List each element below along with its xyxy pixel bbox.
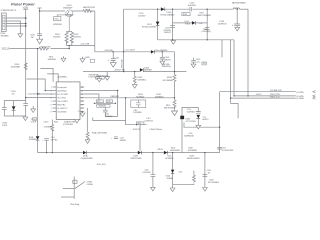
resistor R102: [65, 31, 68, 43]
wire: C104 subcircuit top y100.6: [4, 100, 25, 102]
arrow: C11B net: [31, 109, 36, 113]
capacitor C11y plates on x219.6: [217, 147, 222, 149]
wire: primary top rail2 y9.2: [124, 8, 161, 10]
wire: D103 column: [13, 101, 15, 107]
capacitor C115 plates: [203, 175, 208, 177]
wire: snubber bottom bus y39.8: [158, 39, 234, 41]
wire: R102/R103 top bus: [67, 30, 72, 32]
opto U10B (filled): [180, 116, 184, 120]
wire: IC left feed y79: [27, 79, 46, 91]
svg-text:10K/SMD0: 10K/SMD0: [137, 79, 146, 81]
svg-text:FB0 FB2: FB0 FB2: [57, 104, 66, 106]
wire: C111 lower stub: [25, 105, 27, 117]
resistor R123: [192, 174, 195, 182]
wire: R108 vertical x174.5 top: [174, 52, 176, 74]
svg-text:U1: U1: [81, 87, 83, 89]
wire: R108 to R112: [174, 82, 176, 99]
svg-text:104/TBD0: 104/TBD0: [187, 112, 195, 114]
wire: vertical x219.6 from line1 down to bottom rail: [219, 92, 221, 153]
svg-text:102/1KV: 102/1KV: [138, 15, 146, 17]
capacitor C102 plates: [205, 28, 210, 30]
arrow: R113 net: [61, 58, 66, 62]
transistor Q104: [57, 10, 73, 32]
wire: +5V secondary rail y71.6: [83, 71, 140, 73]
capacitor C104 plates: [2, 108, 7, 110]
capacitor C103 plates: [170, 26, 175, 28]
resistor R10x box under rail: [96, 77, 105, 80]
U100 pin names: [57, 87, 69, 114]
svg-text:104/400V: 104/400V: [188, 5, 197, 7]
svg-text:8: 8: [51, 111, 52, 113]
wire: LED column x172.6: [172, 153, 174, 170]
wire: opto to column: [182, 107, 198, 115]
wire: TVS horizontal y22.9: [173, 22, 192, 24]
wire: pin feed y89.4: [45, 90, 52, 92]
ground: R11A: [85, 140, 90, 144]
pin stubs left of U100: [53, 86, 57, 88]
svg-text:R101: R101: [55, 19, 59, 21]
capacitor C105 (series in rail2): [189, 8, 192, 10]
svg-text:(C10: (C10: [107, 101, 111, 103]
svg-text:+19V_DSB: +19V_DSB: [80, 43, 90, 45]
inductor L100 bumps: [233, 8, 239, 9]
wire: long vertical x37.6: [37, 49, 39, 137]
connector pins: [3, 17, 5, 19]
resistor R11A: [86, 131, 89, 139]
wire: bottom secondary rail y152.6: [38, 152, 83, 154]
svg-text:R12x_NC0: R12x_NC0: [97, 164, 106, 166]
resistor R10A zigzag: [38, 47, 49, 50]
svg-text:UM/9W: UM/9W: [120, 140, 126, 142]
svg-text:42 0: 42 0: [97, 101, 100, 103]
connector CON100 outer box: [1, 13, 6, 32]
svg-text:4.7U/35V/TBD: 4.7U/35V/TBD: [222, 150, 234, 152]
wire: secondary horizontal y51.8: [95, 51, 151, 53]
ground: C230: [235, 27, 240, 31]
wire: diagonal +5VSB flag: [75, 182, 85, 189]
svg-text:+12V D/SB: +12V D/SB: [104, 50, 114, 52]
svg-text:R11A 1.0K Pb/SMD: R11A 1.0K Pb/SMD: [92, 132, 108, 135]
wire: opto drop x182 to bottom rail: [181, 119, 183, 152]
ground: C100 (large): [37, 39, 43, 44]
wire: right vertical down to output line2: [247, 9, 249, 96]
svg-text:1K0/SMD0: 1K0/SMD0: [155, 96, 164, 98]
ground: R112 bottom: [172, 111, 178, 116]
diode D-04 TVS (filled, on y22.9): [192, 21, 195, 25]
diode D10C (filled, on bottom rail): [164, 151, 167, 155]
ground: standalone left: [80, 113, 85, 117]
connector arrows at right edge: [313, 91, 316, 100]
ground: connector pin2: [18, 34, 23, 38]
wire: R11A feed vertical: [86, 108, 88, 131]
svg-text:0.1UF: 0.1UF: [2, 125, 8, 127]
svg-text:(1 1471B: (1 1471B: [296, 92, 304, 94]
arrow: stub to +5V box net: [105, 77, 110, 81]
transistor Q bottom-left box: [73, 180, 77, 183]
box: C11B flag: [33, 118, 37, 121]
wire: bottom-left transistor vertical: [73, 177, 75, 199]
svg-text:L11A 4.7UH/smt: L11A 4.7UH/smt: [150, 128, 163, 131]
resistor R105 in rail: [24, 62, 27, 70]
wire: rail fuse to corner: [90, 10, 94, 12]
svg-text:4.7UF/50V: 4.7UF/50V: [142, 172, 151, 174]
wire: vertical B x234: [233, 40, 235, 96]
svg-text:49.9R 1%: 49.9R 1%: [133, 129, 141, 131]
wire: emitter-resistor bottom bus to fuse vertical: [67, 45, 95, 47]
connector CON100 inner pin strip: [2, 15, 5, 30]
svg-text:VI-LIMIT#2: VI-LIMIT#2: [57, 108, 68, 110]
svg-text:100K/SMD: 100K/SMD: [11, 67, 21, 69]
wire: stub y196.2: [61, 196, 74, 198]
wire: long vertical x231.3 down to output line3: [230, 40, 232, 104]
svg-text:0.1UF: 0.1UF: [31, 122, 37, 124]
wire: vertical from fuse corner down: [94, 11, 96, 52]
svg-text:6TQ040S/SMD: 6TQ040S/SMD: [81, 158, 94, 160]
resistor R108: [173, 74, 176, 82]
ground: C115: [203, 188, 208, 192]
ground: U100 bottom: [75, 120, 80, 124]
svg-text:SS-COMP1: SS-COMP1: [57, 101, 68, 103]
svg-text:12: 12: [81, 104, 83, 106]
svg-text:D10x 3A/SMD: D10x 3A/SMD: [155, 49, 168, 52]
wire: rail Q104 to fuse: [72, 10, 83, 12]
arrow: LX net above IC: [97, 78, 102, 82]
wire: vertical x123.6 from rail2 down to +5V rail: [123, 9, 125, 71]
op-amp U100 PWM controller box: [56, 82, 80, 120]
wire: SET drop x125.6: [125, 98, 127, 121]
wire: Vin vertical at x39.6: [39, 8, 41, 35]
svg-text:VCORE 3.3V: VCORE 3.3V: [270, 90, 283, 92]
svg-text:04/7RO: 04/7RO: [202, 119, 209, 121]
diode D101 (filled, on x157.6): [156, 22, 160, 26]
svg-text:100/SMD0: 100/SMD0: [29, 139, 37, 141]
svg-text:10R0/1%/SMDR: 10R0/1%/SMDR: [187, 158, 201, 160]
svg-text:3.3K/SMD0: 3.3K/SMD0: [44, 127, 53, 129]
capacitor C113 plates: [193, 58, 195, 61]
svg-text:2K4 UN/SMD: 2K4 UN/SMD: [162, 80, 173, 82]
capacitor C11z plates: [196, 112, 201, 114]
arrow: GND flag left of rail: [80, 59, 85, 63]
svg-text:2SA1300P: 2SA1300P: [63, 7, 73, 10]
wire: IC right net y89.4: [84, 91, 117, 117]
svg-text:(GND: (GND: [85, 57, 90, 59]
wire: LED bottom horizontal to R123: [173, 184, 194, 186]
svg-text:10: 10: [81, 111, 83, 113]
diode D104 LED (filled): [171, 170, 174, 174]
svg-text:R106: R106: [183, 14, 187, 16]
wire: R102/R103 bottom bus: [67, 41, 72, 46]
svg-text:0xF/TBD: 0xF/TBD: [51, 140, 58, 142]
capacitor C117 plates: [114, 137, 118, 139]
boxed label VR/560R: [97, 105, 110, 108]
svg-text:3A(7W)/TRANS: 3A(7W)/TRANS: [232, 2, 246, 5]
svg-text:R51x Relay: R51x Relay: [70, 204, 79, 206]
pin stubs right of U100: [80, 86, 84, 88]
wire: connector pin 4 to +19V rail: [6, 25, 26, 27]
wire: stub x222: [221, 40, 223, 57]
wire: R123 top stub: [193, 171, 195, 175]
svg-text:DC-DC/SET: DC-DC/SET: [57, 94, 69, 96]
svg-text:390/SMD: 390/SMD: [1, 35, 10, 37]
wire: top rail from Vin to Q104: [40, 10, 65, 12]
svg-text:11: 11: [81, 108, 83, 110]
resistor box right-net A: [96, 100, 103, 103]
ground: C107 (medium arrow): [110, 63, 116, 68]
svg-text:3: 3: [51, 94, 52, 96]
wire: rail2 to right corner: [240, 8, 249, 10]
svg-text:OPTO/CNY0: OPTO/CNY0: [185, 121, 195, 123]
svg-text:(1B/R560R: (1B/R560R: [110, 96, 119, 98]
wire: jog at x69: [68, 46, 70, 49]
svg-text:KLEDA: KLEDA: [167, 177, 174, 180]
svg-text:16: 16: [81, 90, 83, 92]
output connector refs: [296, 92, 304, 100]
wire: pin feed y98.2: [26, 97, 53, 99]
svg-text:1-SYUI: 1-SYUI: [256, 94, 262, 96]
diode D10C (filled, dcdc block): [197, 115, 201, 119]
svg-text:6: 6: [51, 104, 52, 106]
wire: C115 column x204.9: [204, 153, 206, 188]
wire: DC_IN horizontal: [10, 48, 38, 50]
svg-text:3A/SMDR: 3A/SMDR: [144, 69, 153, 72]
wire: C116 column x152.9: [152, 153, 154, 175]
resistor R11B box: [136, 122, 144, 125]
svg-text:3 DC_IN: 3 DC_IN: [2, 49, 11, 51]
svg-text:(O/GO(B)C): (O/GO(B)C): [202, 31, 212, 33]
wire: after R10A to Q104 bottom node: [51, 48, 70, 50]
U100 pin numbers: [51, 87, 84, 114]
svg-text:3K0 Pb/SMDR: 3K0 Pb/SMDR: [164, 108, 176, 110]
wire: dcdc bottom bus y127.2: [184, 126, 220, 128]
svg-text:R10A 1/2W: R10A 1/2W: [41, 46, 51, 49]
resistor R106 box: [182, 13, 190, 16]
svg-text:(2R-5V: (2R-5V: [157, 149, 163, 151]
svg-text:10UF/50V: 10UF/50V: [218, 23, 227, 25]
svg-text:+5VSB0: +5VSB0: [86, 184, 93, 186]
ground: C113: [191, 64, 196, 68]
svg-text:(C113/5UHD: (C113/5UHD: [63, 124, 74, 126]
svg-text:3K6/2.7W/SMDR: 3K6/2.7W/SMDR: [198, 15, 212, 17]
ground: C109: [160, 61, 165, 65]
diode D10A (filled, on bottom rail): [83, 151, 86, 155]
svg-text:4R7U/48V: 4R7U/48V: [120, 60, 122, 69]
resistor R112: [173, 99, 176, 107]
svg-text:SS8P2C/SMD: SS8P2C/SMD: [130, 158, 142, 160]
svg-text:5: 5: [51, 101, 52, 103]
svg-text:4: 4: [51, 97, 52, 99]
wire: connector pin 3 to +19V rail: [6, 23, 26, 25]
diode D10D (filled, on x37.6): [36, 136, 40, 140]
svg-text:7: 7: [51, 108, 52, 110]
svg-text:0.1u: 0.1u: [197, 61, 200, 63]
resistor R103: [70, 31, 73, 43]
wire: C107 stub: [112, 52, 114, 59]
wire: +19V vertical rail down left side: [25, 9, 27, 103]
capacitor C100 plates: [37, 34, 42, 36]
diode D10B (filled, on bottom rail): [138, 151, 141, 155]
wire: C104 left column: [3, 101, 5, 108]
svg-text:R10R: R10R: [167, 77, 173, 79]
wire: IC right net y93.8: [84, 94, 99, 100]
wire: C104 subcircuit bottom y116: [4, 115, 25, 117]
svg-text:VR/560R: VR/560R: [98, 106, 106, 108]
svg-text:BYV26C/2A/SMD: BYV26C/2A/SMD: [161, 14, 175, 17]
flag box near +5V rail: [90, 59, 94, 62]
svg-text:C111 052/TBR: C111 052/TBR: [28, 93, 41, 95]
wire: cap drop x105.3: [104, 107, 106, 110]
svg-text:1: 1: [51, 87, 52, 89]
wire: diode/cap column x198.3: [197, 107, 199, 111]
svg-text:14: 14: [81, 97, 83, 99]
wire: output line1 VCORE: [220, 91, 296, 93]
wire: connector pin 1 to +19V rail: [6, 17, 26, 19]
wire: stub y190.2: [63, 188, 74, 190]
diode D103 (filled): [12, 106, 16, 110]
ground: snubber bus: [171, 41, 176, 45]
diode D108 (filled, on +5V rail): [140, 68, 143, 72]
wire: connector pin 2 down to ground: [6, 21, 20, 34]
capacitor C11c plates x46.6: [44, 139, 49, 141]
svg-text:0.8s: 0.8s: [179, 171, 182, 173]
capacitor C107 plates: [111, 59, 116, 61]
wire: R113 drop below IC: [51, 120, 53, 124]
wire: R113 column to rail: [51, 130, 53, 153]
capacitor right-net plates: [103, 110, 108, 112]
wire: boxes bus y102.9: [94, 102, 115, 104]
svg-text:2: 2: [51, 90, 52, 92]
capacitor C230 plates: [234, 24, 240, 26]
wire: snubber vertical x172.6: [172, 9, 174, 40]
svg-text:4K02/SMDR: 4K02/SMDR: [170, 150, 181, 152]
wire: IC left feed y73.9: [47, 74, 58, 82]
resistor R109: [133, 76, 136, 84]
svg-text:+5V/OUT TBD: +5V/OUT TBD: [114, 69, 126, 71]
ground: C116: [151, 187, 156, 191]
svg-text:+C113: +C113: [43, 122, 48, 124]
ground: dcdc diode: [196, 125, 201, 129]
svg-text:Panel Power: Panel Power: [11, 1, 35, 6]
svg-text:AJ103/BUL: AJ103/BUL: [57, 75, 68, 78]
svg-text:TVS18: TVS18: [185, 23, 190, 25]
wire: R11B drop x140: [139, 125, 141, 151]
svg-text:R113: R113: [54, 122, 58, 124]
svg-text:+ 31: + 31: [199, 23, 202, 25]
svg-text:(1 1480B: (1 1480B: [296, 98, 304, 100]
wire: lower net segment B: [126, 121, 147, 125]
svg-text:NC/SMD0: NC/SMD0: [136, 96, 144, 98]
wire: dcdc module corner y103.5: [231, 104, 239, 119]
wire: SET net horizontal y97.8 (pin row to R112): [84, 97, 174, 99]
svg-text:Freq/agnd: Freq/agnd: [57, 87, 66, 89]
svg-text:SSK0008: SSK0008: [105, 116, 112, 118]
wire: lower net segment A: [93, 118, 126, 121]
svg-text:CONN RECEPT 4: CONN RECEPT 4: [0, 10, 17, 12]
ground: LED column: [170, 188, 175, 192]
svg-text:Up/offVync: Up/offVync: [57, 90, 67, 92]
svg-text:100K/SM0: 100K/SM0: [48, 59, 56, 61]
svg-text:WR/560R: WR/560R: [53, 24, 62, 26]
svg-text:UM/25V: UM/25V: [164, 60, 171, 62]
diode D106 (filled, on y51.8): [151, 50, 154, 54]
ground: C104 subcircuit: [23, 117, 28, 121]
wire: pin feed y93.8: [38, 93, 53, 95]
svg-text:102/SMD0: 102/SMD0: [133, 112, 141, 114]
svg-text:+19V: +19V: [23, 7, 29, 9]
svg-text:VDDL 1.1v: VDDL 1.1v: [270, 97, 281, 99]
svg-text:NC/SMD0: NC/SMD0: [165, 158, 173, 160]
resistor R101 box: [54, 17, 61, 21]
svg-text:GexSSM2: GexSSM2: [57, 111, 67, 113]
node +19V flag: [23, 8, 28, 10]
svg-text:VCC FB1: VCC FB1: [57, 97, 66, 99]
svg-text:3OK/SMDR: 3OK/SMDR: [188, 150, 198, 152]
svg-text:BYV26C/2G/SMD: BYV26C/2G/SMD: [142, 27, 157, 29]
svg-text:560/1R0: 560/1R0: [53, 36, 61, 38]
diode D100 (filled, on rail2): [161, 7, 165, 11]
capacitor C111 plates: [23, 104, 28, 106]
svg-text:L1 L1 10uH: L1 L1 10uH: [125, 50, 136, 52]
wire: R123 bottom into y184.7: [193, 184, 195, 185]
wire: output line2 VDDQ: [234, 95, 296, 97]
svg-text:104/SMD/1K: 104/SMD/1K: [184, 136, 195, 138]
wire: C109 stub from y51.8: [161, 52, 163, 58]
capacitor C112 box: [131, 100, 146, 108]
svg-text:LX4121/CMO: LX4121/CMO: [89, 76, 101, 78]
svg-text:13: 13: [81, 101, 83, 103]
wire: C230 stub: [236, 9, 238, 24]
wire: output line3 VDDL: [231, 97, 296, 99]
resistor R113 below IC: [51, 124, 54, 132]
svg-text:560/1R0: 560/1R0: [74, 36, 82, 38]
fuse F101 zigzag: [82, 10, 93, 13]
wire: IC left feed y68.6: [40, 69, 53, 82]
wire: snubber vertical x157.6: [157, 9, 159, 40]
svg-text:3K7 Pb/SMD0: 3K7 Pb/SMD0: [208, 182, 219, 184]
svg-text:(SMD/R10): (SMD/R10): [162, 66, 171, 68]
wire: R109 stub+lower: [134, 72, 136, 76]
svg-text:15: 15: [81, 94, 83, 96]
resistor box right-net B: [106, 100, 112, 103]
wire: snubber vertical x207.2: [206, 9, 208, 40]
svg-text:104/1KV: 104/1KV: [164, 32, 172, 34]
capacitor C109 plates: [160, 57, 165, 59]
ground: R109: [132, 85, 137, 89]
capacitor C116 plates: [151, 175, 156, 177]
wire: y127.2 left end: [183, 123, 185, 128]
svg-text:120UF/smt: 120UF/smt: [144, 120, 153, 123]
